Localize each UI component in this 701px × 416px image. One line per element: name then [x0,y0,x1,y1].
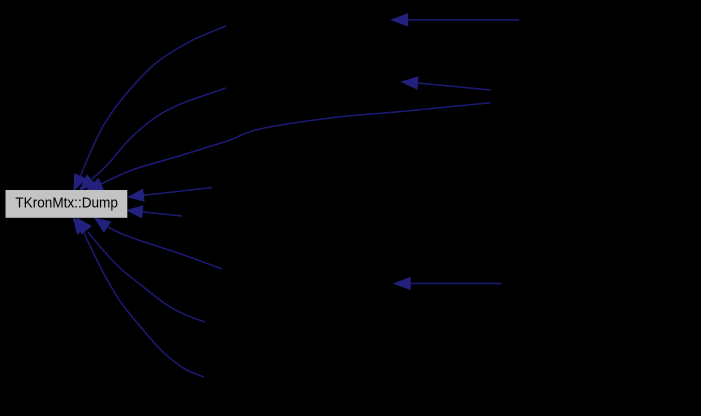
edge caller1 -> TKronMtx::Dump [74,26,226,190]
edge caller5 -> TKronMtx::Dump [127,206,182,218]
edge caller6 -> TKronMtx::Dump [95,218,222,269]
edge caller12 -> caller13 [394,278,502,290]
edge caller2 -> TKronMtx::Dump [80,88,226,190]
node TKronMtx::Dump [6,190,128,218]
edge caller4 -> TKronMtx::Dump [129,188,213,202]
svg-text:TKronMtx::Dump: TKronMtx::Dump [15,194,118,211]
edge caller8 -> TKronMtx::Dump [74,218,205,377]
edge caller3 -> caller11 [402,77,491,90]
edge caller9 -> caller10 [392,14,520,26]
edge caller7 -> TKronMtx::Dump [77,218,205,322]
edge caller3 -> TKronMtx::Dump [87,103,491,190]
